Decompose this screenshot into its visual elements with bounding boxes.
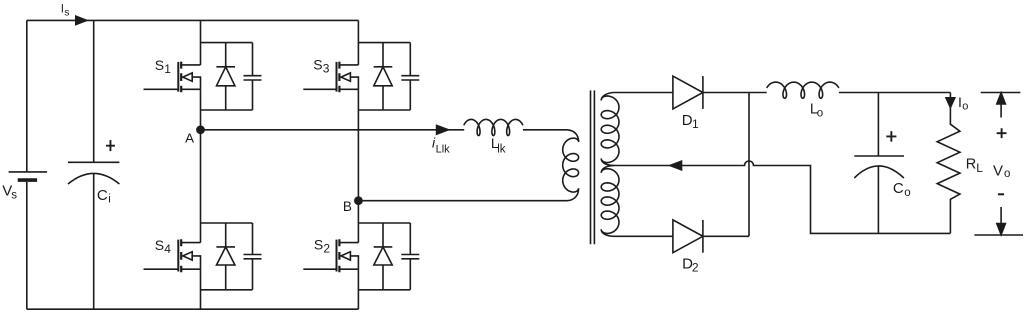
transistor S4 drain wire (182, 242, 201, 244)
transistor S3 drain wire (340, 64, 358, 66)
snubber capacitor of S4 (244, 223, 262, 290)
capacitor Ci top wire (93, 20, 95, 162)
svg-text:1: 1 (164, 62, 171, 76)
svg-text:o: o (962, 101, 968, 113)
svg-text:1: 1 (692, 117, 699, 131)
wire right bridge leg (upper) (357, 20, 359, 65)
Vo top tick (981, 92, 1021, 94)
svg-text:2: 2 (323, 241, 330, 255)
transformer secondary winding (bottom half) (601, 166, 619, 237)
transistor S3 gate bar (336, 62, 338, 92)
svg-text:o: o (904, 187, 910, 199)
transistor S4 body arrow (183, 252, 192, 260)
svg-text:2: 2 (692, 261, 699, 275)
arrow on center tap (pointing left) (670, 161, 682, 170)
transistor S1 drain wire (182, 64, 201, 66)
wire Llk to transformer primary (523, 129, 567, 131)
node A (196, 125, 205, 134)
transistor S4 gate bar (177, 240, 179, 272)
arrow iLlk (437, 125, 449, 134)
S3 cell top bus (358, 42, 410, 44)
capacitor Ci bottom wire (93, 173, 95, 309)
svg-text:o: o (817, 107, 823, 119)
label + of Ci (106, 140, 115, 151)
wire secondary bottom to D2 (614, 235, 673, 237)
svg-text:S: S (314, 236, 323, 252)
transformer core (591, 90, 595, 244)
inductor Llk (464, 119, 523, 135)
svg-text:lk: lk (497, 144, 506, 156)
wire bottom rail (27, 308, 359, 310)
S1 cell bottom bus (201, 109, 253, 111)
battery Vs top wire (26, 20, 28, 172)
node B (354, 196, 363, 205)
transistor S3 body arrow (341, 73, 350, 81)
body diode of S1 (216, 43, 235, 110)
Vo up arrow (1000, 103, 1002, 118)
diode D1 (673, 76, 703, 109)
transistor S1 channel dashes (180, 62, 182, 93)
battery Vs bottom wire (26, 182, 28, 309)
svg-text:S: S (313, 56, 322, 72)
battery Vs plates (9, 171, 48, 173)
transistor S1 source wire (182, 88, 201, 90)
svg-text:S: S (155, 57, 164, 73)
transistor S1 body wire (192, 77, 200, 89)
svg-text:4: 4 (164, 242, 171, 256)
transistor S1 body arrow (183, 73, 192, 81)
snubber capacitor of S3 (401, 43, 419, 110)
snubber capacitor of S2 (401, 223, 419, 290)
svg-text:3: 3 (323, 61, 330, 75)
transistor S3 source wire (340, 88, 358, 90)
wire top rail (27, 19, 359, 21)
transistor S2 gate bar (336, 240, 338, 272)
S2 cell bottom bus (358, 289, 410, 291)
inductor Lo (767, 82, 839, 98)
transformer secondary winding (top half) (601, 93, 673, 166)
svg-text:L: L (976, 161, 983, 175)
wire right bridge leg (lower) (357, 269, 359, 309)
body diode of S2 (374, 223, 393, 290)
svg-text:S: S (155, 237, 164, 253)
label + of Co (886, 131, 896, 142)
resistor RL (937, 93, 960, 234)
wire node A to Llk (201, 129, 465, 131)
wire left bridge leg (middle, through node A) (200, 89, 202, 242)
transistor S4 gate lead (144, 268, 179, 270)
arrow Io (946, 98, 955, 108)
Vo bottom tick (974, 234, 1023, 236)
wire left bridge leg (lower) (200, 269, 202, 309)
snubber capacitor of S1 (244, 43, 262, 110)
transistor S2 body arrow (341, 252, 350, 260)
S2 cell top bus (358, 222, 410, 224)
transistor S2 gate lead (303, 268, 336, 270)
wire D1 cathode to junction (703, 92, 767, 94)
transistor S2 channel dashes (338, 239, 340, 272)
svg-text:i: i (108, 193, 111, 205)
capacitor Ci plates (68, 161, 119, 163)
label - of Vo (998, 193, 1004, 195)
diode D2 (673, 220, 703, 253)
wire rectifier junction vertical (748, 93, 750, 237)
transistor S1 gate lead (144, 88, 179, 90)
wire transformer primary to node B (358, 200, 567, 202)
S4 cell bottom bus (201, 289, 253, 291)
transistor S2 drain wire (340, 242, 358, 244)
svg-text:R: R (966, 157, 976, 173)
svg-text:s: s (64, 7, 69, 19)
svg-text:V: V (993, 162, 1003, 179)
S3 cell bottom bus (358, 109, 410, 111)
capacitor Co (854, 93, 904, 234)
svg-text:A: A (185, 131, 194, 146)
S1 cell top bus (201, 42, 253, 44)
transistor S1 gate bar (177, 62, 179, 92)
wire Lo to RL corner (839, 92, 951, 94)
svg-text:Llk: Llk (436, 144, 451, 156)
transistor S3 channel dashes (338, 62, 340, 93)
center tap wire with crossover hop (614, 161, 950, 233)
svg-text:B: B (343, 199, 352, 214)
S4 cell top bus (201, 222, 253, 224)
label + of Vo (997, 128, 1007, 138)
svg-text:C: C (97, 187, 108, 204)
body diode of S4 (216, 223, 235, 290)
transformer primary winding (563, 130, 579, 201)
wire D2 cathode to junction (703, 235, 749, 237)
transistor S4 body wire (192, 256, 200, 269)
svg-text:s: s (11, 189, 17, 201)
transistor S3 body wire (350, 77, 358, 89)
wire left bridge leg (upper) (200, 20, 202, 65)
transistor S4 source wire (182, 268, 201, 270)
wire right bridge leg (middle, through node B) (357, 89, 359, 242)
body diode of S3 (374, 43, 393, 110)
transistor S3 gate lead (303, 88, 336, 90)
svg-text:C: C (893, 180, 904, 197)
transistor S2 body wire (350, 256, 358, 269)
svg-text:o: o (1004, 168, 1010, 180)
arrow Is on top rail (76, 16, 87, 24)
transistor S2 source wire (340, 268, 358, 270)
transistor S4 channel dashes (180, 239, 182, 272)
Vo down arrow (1000, 207, 1002, 223)
